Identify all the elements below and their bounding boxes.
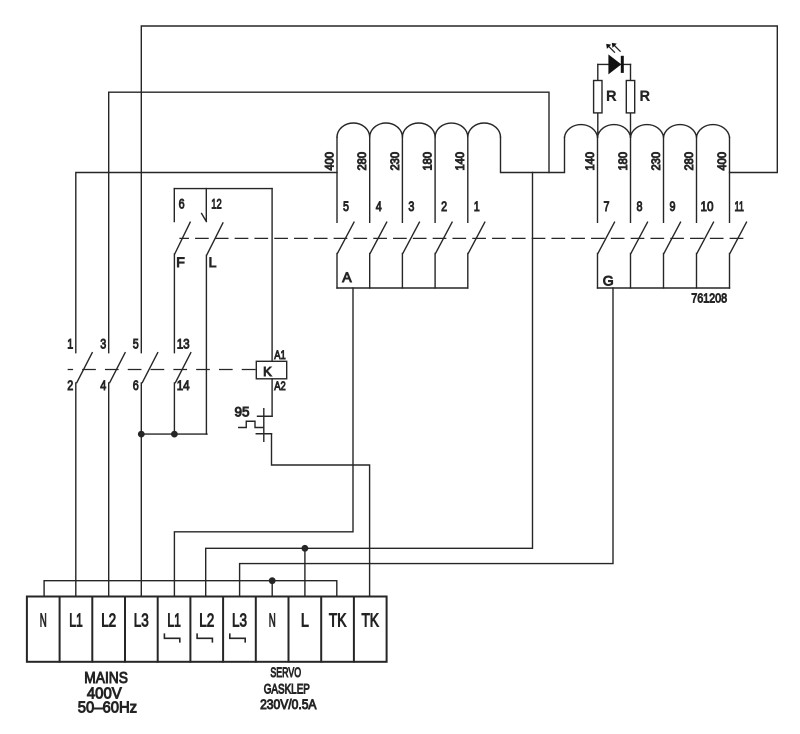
svg-text:13: 13 — [177, 336, 190, 352]
svg-text:SERVO: SERVO — [270, 665, 301, 680]
wire tap 180 (T1) — [434, 137, 436, 222]
svg-text:L: L — [301, 610, 309, 630]
svg-text:3: 3 — [408, 198, 414, 214]
wire tap 400 (T1) — [336, 137, 338, 222]
resistor R2 — [630, 64, 632, 137]
wire tap 280 (T2) — [696, 137, 698, 222]
transformer winding T2 (selector G taps) — [565, 125, 730, 138]
svg-text:R: R — [606, 87, 616, 103]
contactor K contact 13-14 — [174, 353, 190, 434]
wire selector G output to terminal L3 servo — [240, 288, 613, 597]
svg-text:L3: L3 — [232, 610, 247, 630]
svg-text:230: 230 — [650, 152, 663, 171]
svg-text:TK: TK — [329, 610, 347, 630]
junction dot (N servo) — [269, 577, 276, 584]
thermal overload contact 95 — [239, 409, 272, 442]
svg-text:L2: L2 — [101, 610, 116, 630]
switch contact 12 (L) with actuator arrow — [202, 189, 223, 435]
junction dot (contact 14) — [171, 431, 178, 438]
switch contact 3 (selector A) — [402, 222, 419, 288]
svg-text:230: 230 — [389, 152, 402, 171]
svg-text:140: 140 — [584, 152, 597, 171]
terminal link symbol (L2 servo) — [197, 634, 212, 642]
svg-text:12: 12 — [211, 196, 222, 212]
wire tap 140 (T2) — [597, 137, 599, 222]
switch contact 9 (selector G) — [664, 222, 681, 288]
svg-text:761208: 761208 — [691, 290, 727, 305]
wire L2 phase rail to winding mid junction — [109, 92, 549, 353]
mechanical coupling dashed link (selectors A and G) — [180, 237, 743, 239]
svg-text:A: A — [342, 269, 352, 285]
contactor K contact 5-6 — [141, 353, 157, 597]
svg-text:140: 140 — [454, 152, 467, 171]
svg-text:5: 5 — [133, 336, 139, 352]
svg-text:L3: L3 — [134, 610, 149, 630]
switch contact 2 (selector A) — [435, 222, 452, 288]
switch contact 11 (selector G) — [730, 222, 747, 288]
wire tap 180 (T2) — [630, 137, 632, 222]
svg-text:F: F — [176, 254, 185, 270]
switch contact 7 (selector G) — [598, 222, 615, 288]
wire terminal N servo stub — [271, 581, 273, 597]
svg-text:4: 4 — [100, 377, 106, 393]
wire winding mid junction to terminals L2 servo — [206, 173, 533, 597]
terminal link symbol (L1 servo) — [164, 634, 179, 642]
svg-text:2: 2 — [441, 198, 447, 214]
mechanical coupling dashed link (contactor K) — [68, 369, 256, 371]
svg-text:95: 95 — [235, 405, 250, 420]
svg-text:11: 11 — [735, 198, 745, 214]
svg-text:50–60Hz: 50–60Hz — [78, 700, 137, 717]
svg-text:6: 6 — [133, 377, 139, 393]
wire overload to terminal TK — [272, 434, 370, 597]
svg-text:3: 3 — [100, 336, 106, 352]
svg-text:280: 280 — [356, 152, 369, 171]
bus G (selector G output) — [598, 287, 730, 289]
svg-text:400: 400 — [323, 152, 336, 171]
terminal strip X1 — [27, 597, 387, 662]
svg-text:R: R — [640, 87, 650, 103]
svg-text:N: N — [269, 610, 276, 630]
svg-text:180: 180 — [617, 152, 630, 171]
svg-text:N: N — [40, 610, 47, 630]
svg-text:400: 400 — [716, 152, 729, 171]
transformer winding T1 (selector A taps) — [337, 123, 501, 137]
svg-text:L2: L2 — [199, 610, 214, 630]
wire tap 140 (T1) — [467, 137, 469, 222]
svg-text:MAINS: MAINS — [84, 670, 128, 687]
switch contact 8 (selector G) — [631, 222, 648, 288]
svg-text:10: 10 — [701, 198, 714, 214]
wire series link between windings T1 and T2 — [501, 137, 565, 172]
svg-text:9: 9 — [670, 198, 676, 214]
svg-text:A1: A1 — [274, 348, 286, 362]
junction dot (L stub) — [302, 545, 309, 552]
LED D1 light arrows — [609, 46, 620, 53]
svg-text:5: 5 — [343, 198, 349, 214]
svg-text:14: 14 — [177, 377, 190, 393]
wire coil feed A1 — [271, 189, 273, 362]
svg-text:6: 6 — [179, 196, 185, 212]
switch contact 5 (selector A) — [337, 222, 354, 288]
svg-text:GASKLEP: GASKLEP — [264, 682, 310, 697]
wire holding circuit junction — [141, 433, 207, 435]
svg-text:A2: A2 — [274, 379, 286, 393]
wire A2 to overload contact — [271, 379, 273, 416]
LED D1 — [598, 63, 631, 65]
svg-text:2: 2 — [67, 377, 73, 393]
wire neutral link N-N-TK — [44, 581, 337, 597]
resistor R1 — [597, 64, 599, 137]
switch contact 4 (selector A) — [370, 222, 387, 288]
svg-text:180: 180 — [422, 152, 435, 171]
wire L3 phase rail with top border to winding T2 end (400) — [141, 26, 777, 353]
wire tap 230 (T1) — [401, 137, 403, 222]
wire L1 phase rail to winding T1 end (400) — [76, 173, 337, 353]
svg-text:L1: L1 — [69, 610, 83, 630]
wire terminal L stub — [304, 548, 306, 596]
svg-text:7: 7 — [604, 198, 610, 214]
wire tap 230 (T2) — [663, 137, 665, 222]
switch contact 6 (F) — [174, 189, 190, 353]
wire top rail of switch block 6-12 — [174, 188, 272, 190]
junction dot (contact 6) — [138, 431, 145, 438]
svg-text:TK: TK — [361, 610, 379, 630]
svg-text:1: 1 — [67, 336, 73, 352]
contactor K contact 3-4 — [109, 353, 125, 597]
svg-text:K: K — [263, 364, 272, 379]
svg-text:1: 1 — [474, 198, 480, 214]
svg-text:4: 4 — [376, 198, 382, 214]
svg-text:8: 8 — [637, 198, 643, 214]
svg-text:280: 280 — [683, 152, 696, 171]
svg-text:L1: L1 — [167, 610, 181, 630]
bus A (selector A output) — [337, 287, 468, 289]
contactor K contact 1-2 — [76, 353, 92, 597]
terminal link symbol (L3 servo) — [230, 634, 245, 642]
switch contact 10 (selector G) — [697, 222, 714, 288]
svg-text:L: L — [209, 254, 217, 270]
svg-text:230V/0.5A: 230V/0.5A — [260, 697, 316, 712]
wire selector A output to terminal L1 servo — [174, 288, 353, 597]
svg-text:G: G — [603, 273, 614, 289]
switch contact 1 (selector A) — [468, 222, 485, 288]
wire tap 280 (T1) — [369, 137, 371, 222]
wire tap 400 (T2) — [729, 137, 731, 222]
contactor coil K — [256, 361, 286, 379]
